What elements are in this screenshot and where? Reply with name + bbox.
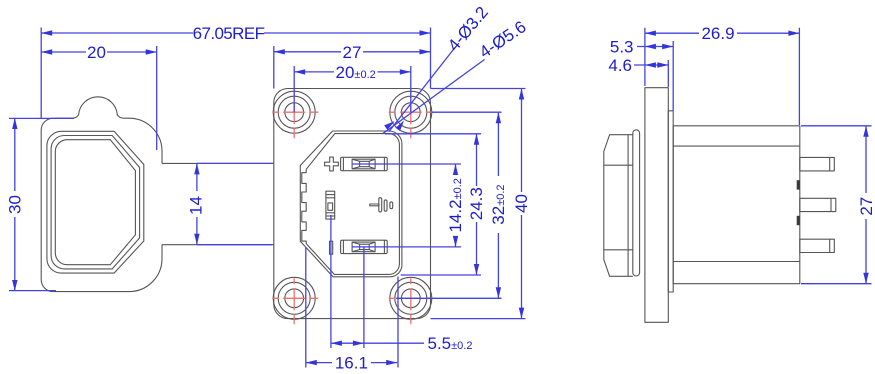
- extension line hole row bottom: [396, 297, 502, 299]
- dim 5.5±0.2: [331, 334, 473, 353]
- cap side band lower: [604, 249, 633, 251]
- cap side profile: [604, 135, 633, 277]
- hole TR boss: [390, 91, 432, 133]
- svg-text:16.1: 16.1: [335, 354, 368, 373]
- cap rim middle D-outline: [51, 136, 140, 269]
- svg-text:4.6: 4.6: [608, 56, 632, 75]
- hole TL bore: [285, 103, 304, 122]
- extension line cap right tangent: [156, 46, 158, 150]
- dim 16.1: [306, 354, 397, 373]
- center mark TR: [389, 92, 435, 138]
- socket inner rim left edge with teeth: [302, 169, 306, 243]
- dim 30 cap height: [6, 118, 25, 291]
- extension line socket top: [385, 133, 481, 135]
- extension line flange bottom: [431, 318, 526, 320]
- extension line fuse2 center: [352, 246, 461, 248]
- dim 20 cap: [41, 43, 157, 62]
- dim 27 flange width: [274, 43, 431, 62]
- svg-text:27: 27: [343, 43, 362, 62]
- neck top edge: [162, 162, 274, 164]
- hole BR counterbore: [395, 282, 427, 314]
- hole TR bore: [401, 103, 420, 122]
- extension line fuse1 center: [352, 163, 461, 165]
- extension line flange rear face: [667, 60, 669, 87]
- extension line body bottom: [801, 283, 872, 285]
- extension line cap bottom: [9, 290, 56, 292]
- svg-text:27: 27: [857, 197, 875, 216]
- hole BL bore: [285, 289, 304, 308]
- extension line socket bottom: [401, 274, 481, 276]
- svg-text:5.3: 5.3: [610, 38, 634, 57]
- hole TL counterbore: [278, 96, 310, 128]
- fuse holder upper: [341, 157, 388, 170]
- dim 20±0.2 hole spacing: [294, 63, 411, 82]
- pin 1: [800, 157, 835, 171]
- extension line key center: [330, 215, 332, 348]
- svg-text:20: 20: [87, 43, 106, 62]
- dim 24.3: [467, 134, 486, 275]
- neck bottom edge: [162, 244, 274, 246]
- earth ground symbol: [370, 198, 393, 212]
- leader 4-Ø3.2: [389, 3, 492, 132]
- extension line cap left edge: [40, 28, 42, 119]
- extension line socket lower-right: [397, 277, 399, 368]
- hole BL counterbore: [278, 282, 310, 314]
- extension line hole row top: [432, 111, 502, 113]
- rim lip: [668, 111, 673, 292]
- body parting line upper: [673, 145, 800, 147]
- dim 26.9: [645, 24, 800, 43]
- extension line fuse2 vertical: [363, 247, 365, 348]
- extension line cap top: [9, 117, 74, 119]
- hole TR counterbore: [395, 96, 427, 128]
- plus polarity mark: [325, 157, 339, 171]
- center mark BL: [272, 278, 318, 324]
- flange plate side: [645, 88, 668, 323]
- hole BR bore: [401, 289, 420, 308]
- svg-text:40: 40: [512, 194, 531, 213]
- small slot: [330, 241, 333, 254]
- pin 2: [800, 198, 836, 211]
- flange plate: [274, 89, 431, 319]
- cap rim inner D-outline: [55, 140, 135, 265]
- extension line body top: [801, 125, 872, 127]
- center mark TL: [272, 92, 318, 138]
- socket inner rim right/top/bottom: [306, 134, 399, 275]
- extension line hole TL center: [293, 66, 295, 112]
- sealing bead: [633, 130, 640, 276]
- front view geometry: [41, 89, 435, 325]
- svg-text:67.05REF: 67.05REF: [193, 24, 265, 43]
- extension line flange right edge top: [430, 28, 432, 89]
- extension line hole TR center: [410, 66, 412, 112]
- svg-text:30: 30: [6, 195, 25, 214]
- dim 27 body height: [857, 126, 875, 284]
- extension line lip face: [672, 41, 674, 111]
- extension line neck bottom: [197, 244, 273, 246]
- dim 14 neck: [187, 163, 206, 244]
- extension line socket lower-left: [305, 247, 307, 368]
- leader 4-Ø5.6: [383, 17, 530, 134]
- side view geometry: [604, 88, 836, 323]
- extension line flange left edge: [273, 46, 275, 89]
- svg-text:24.3: 24.3: [467, 187, 486, 220]
- hole BL boss: [273, 277, 315, 319]
- extension line flange front face: [644, 28, 646, 86]
- svg-text:26.9: 26.9: [701, 24, 734, 43]
- dim 14.2±0.2: [446, 164, 465, 247]
- cap side inner edge: [627, 135, 629, 277]
- extension line neck top: [197, 162, 273, 164]
- dim 4.6: [608, 56, 668, 75]
- extension line flange top: [431, 88, 526, 90]
- fuse holder lower: [341, 240, 388, 253]
- dim 5.3: [610, 38, 673, 57]
- hole BR boss: [390, 277, 432, 319]
- socket outer outline: [300, 131, 402, 277]
- dim 67.05REF: [41, 24, 430, 43]
- connector body side: [673, 126, 800, 284]
- extension line body rear face: [798, 28, 800, 125]
- cap rim outer D-outline: [47, 131, 144, 273]
- rubber cap outline with dome bump: [41, 97, 162, 292]
- hole TL boss: [273, 91, 315, 133]
- dim 40: [512, 89, 531, 319]
- svg-text:14: 14: [187, 196, 206, 215]
- dim 32±0.2: [489, 112, 508, 298]
- slot mark upper: [797, 180, 800, 189]
- cap side band upper: [604, 164, 633, 166]
- pin 3: [800, 239, 835, 252]
- body parting line lower: [673, 261, 800, 263]
- center mark BR: [389, 278, 435, 324]
- keying block: [326, 191, 335, 219]
- slot mark lower: [797, 216, 800, 225]
